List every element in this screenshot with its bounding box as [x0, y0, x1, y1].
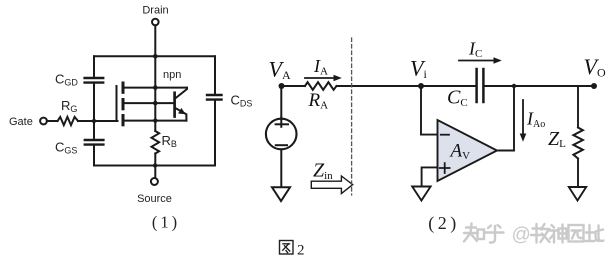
source terminal: [151, 178, 158, 185]
junction bottom rail: [153, 163, 157, 167]
wire source to ground: [280, 149, 282, 187]
resistor RG: [58, 98, 79, 125]
svg-text:2: 2: [297, 243, 305, 259]
svg-text:Gate: Gate: [9, 116, 33, 128]
wire bottom rail: [94, 165, 215, 167]
wire VA to RA: [282, 85, 306, 87]
current IA arrow: [305, 75, 342, 82]
ground G2: [412, 187, 430, 201]
transistor Q1 collector: [176, 88, 187, 98]
svg-text:Drain: Drain: [142, 5, 168, 17]
wire opamp output: [497, 86, 514, 151]
wire left edge mid: [93, 84, 95, 139]
wire opamp plus to ground: [422, 167, 438, 186]
resistor RA: [305, 82, 337, 111]
capacitor CC: [447, 69, 483, 109]
junction base line: [153, 101, 158, 106]
wire mosfet drain contact: [124, 87, 187, 89]
wire Vi to CC: [421, 85, 476, 87]
wire ZL to ground: [577, 159, 579, 188]
capacitor CGS: [55, 140, 103, 156]
transistor Q1 emitter arrow: [178, 108, 186, 114]
node Vi junction: [418, 83, 424, 89]
svg-text:@: @: [512, 225, 531, 246]
junction drain/top-rail: [153, 54, 158, 59]
transistor M1 channel bars: [122, 83, 125, 125]
node VA junction: [279, 83, 285, 89]
wire RA to Vi: [337, 85, 422, 87]
ground G1: [272, 187, 290, 201]
op-amp AV: [438, 120, 498, 181]
junction source line: [153, 118, 157, 122]
wire drain to box: [154, 25, 156, 56]
svg-text:npn: npn: [163, 69, 181, 81]
wire right edge lower: [214, 101, 216, 166]
transistor M1 mosfet gate bar: [116, 86, 118, 121]
wire CC to VO: [484, 85, 594, 87]
transistor Q1 emitter: [176, 108, 187, 120]
node VO terminal: [591, 83, 597, 89]
Zin block arrow: [311, 176, 352, 194]
svg-text:(2): (2): [428, 213, 460, 234]
voltage source VA: [266, 118, 297, 150]
gate terminal: [40, 118, 47, 125]
wire gate to RG: [47, 120, 58, 122]
wire left edge lower: [93, 146, 95, 166]
transistor Q1 base bar: [173, 93, 176, 117]
resistor RB: [152, 131, 177, 154]
impedance ZL: [548, 128, 583, 159]
watermark 知乎@牧神园地: [464, 224, 604, 243]
wire mosfet source contact: [124, 120, 186, 122]
capacitor CGD: [55, 72, 103, 88]
wire VO branch down: [577, 86, 579, 128]
current IAo arrow: [520, 100, 546, 142]
drain terminal: [152, 19, 159, 26]
ground G3: [569, 187, 586, 201]
capacitor CDS: [207, 93, 252, 109]
wire RB to source terminal: [154, 154, 156, 178]
svg-text:Source: Source: [137, 193, 172, 205]
wire Vi to opamp minus: [421, 86, 438, 135]
junction output: [512, 84, 516, 88]
wire top rail: [94, 55, 215, 57]
junction collector line: [153, 85, 158, 90]
junction RG/left-edge: [92, 119, 96, 123]
svg-text:(1): (1): [152, 213, 180, 232]
wire mosfet body contact: [124, 102, 173, 104]
wire left edge upper: [93, 56, 95, 77]
wire VA down to source: [280, 86, 282, 127]
caption 图2: [280, 241, 294, 255]
wire center vertical: [154, 56, 156, 131]
wire RG to mosfet gate: [78, 120, 118, 122]
wire right edge upper: [214, 56, 216, 94]
dashed boundary line: [351, 38, 353, 195]
current IC arrow: [459, 57, 502, 64]
